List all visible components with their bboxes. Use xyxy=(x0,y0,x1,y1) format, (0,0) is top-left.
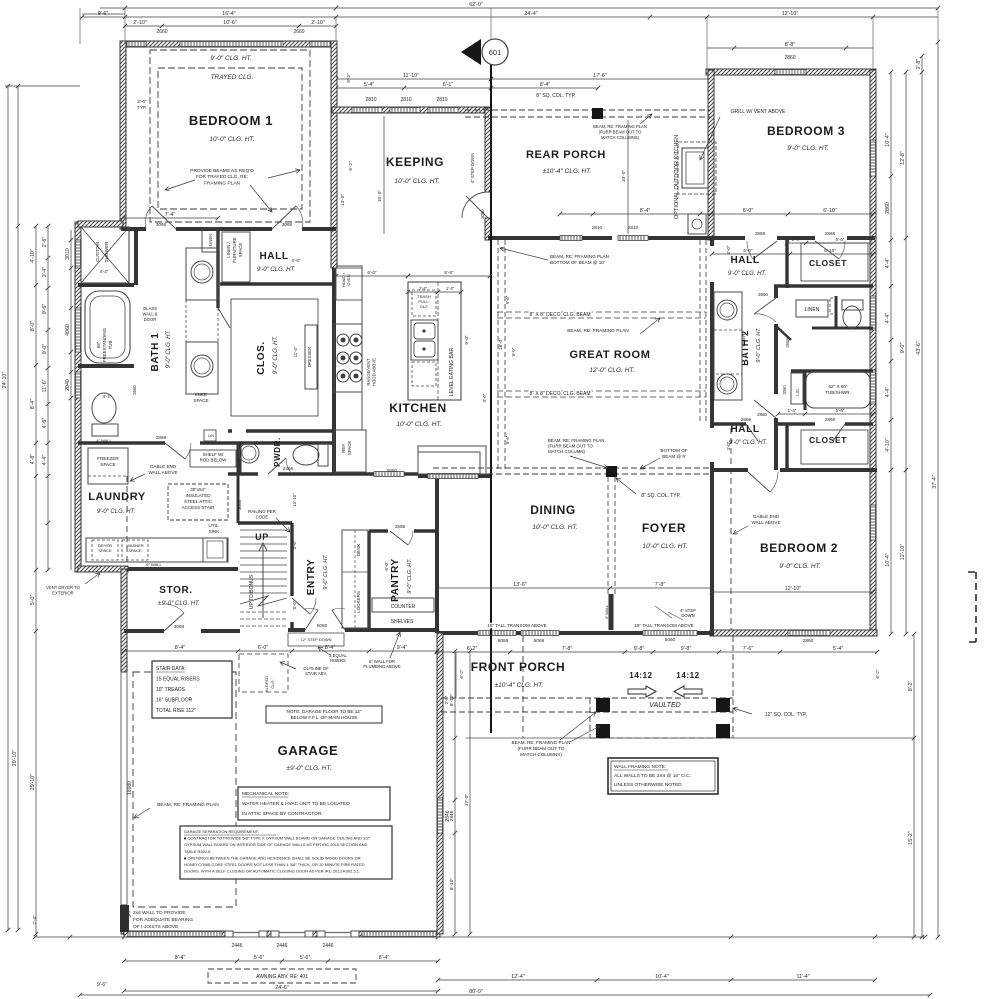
front porch edge dashed xyxy=(590,636,733,738)
svg-text:3068: 3068 xyxy=(174,624,185,629)
wall pantry top xyxy=(369,529,437,532)
svg-text:UNLESS OTHERWISE NOTED.: UNLESS OTHERWISE NOTED. xyxy=(614,782,683,788)
dimension closet1 1'-4 5'-6 xyxy=(785,237,875,245)
wall closet1 left xyxy=(785,238,788,288)
dresser closet xyxy=(305,325,317,389)
range box xyxy=(334,324,362,392)
svg-text:PROVIDE BEAMS AS REQ’D: PROVIDE BEAMS AS REQ’D xyxy=(190,168,254,174)
svg-text:PWDR.: PWDR. xyxy=(273,437,282,467)
svg-text:2446: 2446 xyxy=(276,943,287,949)
dimension island 5'-8 xyxy=(406,270,492,278)
svg-text:10′-0″ CLG. HT.: 10′-0″ CLG. HT. xyxy=(642,543,687,550)
label ref space xyxy=(341,441,352,456)
dimension 5'-4 6'-1 keeping xyxy=(334,82,493,90)
label gable end wall above laundry xyxy=(148,464,177,475)
mechanical underline xyxy=(242,796,288,798)
note beam furr foyer xyxy=(548,438,604,454)
svg-text:CUSTOM: CUSTOM xyxy=(95,242,100,262)
label attic access xyxy=(182,487,215,510)
note garage separation text xyxy=(184,829,371,874)
svg-text:SPACE: SPACE xyxy=(98,548,112,553)
dimension 17'-6 rear porch xyxy=(489,73,713,81)
svg-text:HALL: HALL xyxy=(730,255,759,266)
svg-text:10′-0″ CLG. HT.: 10′-0″ CLG. HT. xyxy=(532,524,577,531)
door leaf closet entry xyxy=(218,308,230,328)
svg-text:BEDROOM 1: BEDROOM 1 xyxy=(189,113,273,128)
svg-text:±9′-0″ CLG. HT.: ±9′-0″ CLG. HT. xyxy=(158,601,200,607)
svg-text:10′-4″: 10′-4″ xyxy=(655,974,669,980)
section marker 601 circle xyxy=(482,39,508,65)
slope arrow left xyxy=(674,686,702,697)
dimension rear porch / bedroom3 bottom xyxy=(558,208,875,216)
svg-text:SHELF W/: SHELF W/ xyxy=(203,452,225,457)
svg-text:9′-0″ CLG. HT.: 9′-0″ CLG. HT. xyxy=(728,271,767,277)
wall shower right xyxy=(134,229,138,285)
column front porch c xyxy=(596,724,610,738)
2x6 bearing wall segment xyxy=(120,905,129,932)
closet2 shelf outline xyxy=(801,430,868,464)
svg-text:DOWN: DOWN xyxy=(681,613,694,618)
dimension kitchen 6'-0 xyxy=(334,270,410,278)
arrow beam furr rear porch xyxy=(640,114,652,124)
svg-text:MECHANICAL NOTE:: MECHANICAL NOTE: xyxy=(242,791,289,797)
note box wall framing xyxy=(608,758,718,794)
door arc stor xyxy=(164,604,184,613)
svg-text:12′-4″: 12′-4″ xyxy=(511,974,525,980)
svg-text:1′-4″: 1′-4″ xyxy=(446,286,455,291)
svg-text:2′-10″: 2′-10″ xyxy=(311,20,325,26)
step down box entry xyxy=(288,633,344,646)
garage door jamb tabs xyxy=(225,931,359,937)
pocket door dashed bath2 wc xyxy=(830,298,836,314)
note box mechanical xyxy=(238,787,390,820)
tick baseline xyxy=(873,935,877,939)
garage ceiling dashed outline xyxy=(133,672,236,907)
wall great room / right wing xyxy=(710,238,714,472)
wall bath2 wc xyxy=(835,296,838,328)
dimension 24'-10 left outer xyxy=(2,84,10,932)
arrow gable bed2 xyxy=(733,526,748,534)
svg-text:3′-0″: 3′-0″ xyxy=(482,393,487,402)
porch v dim line xyxy=(455,652,457,698)
svg-text:VENT DRYER TO: VENT DRYER TO xyxy=(46,585,80,590)
svg-text:7′-6″: 7′-6″ xyxy=(743,646,754,652)
door leaf closet2 a xyxy=(746,424,758,441)
knee space dashed xyxy=(186,300,218,342)
door leaf bedroom1 left xyxy=(152,206,176,229)
note 2x6 wall xyxy=(133,910,193,930)
svg-text:(FURR BEAM OUT TO: (FURR BEAM OUT TO xyxy=(599,129,643,134)
svg-text:DINING: DINING xyxy=(530,503,576,517)
svg-text:SLOPED: SLOPED xyxy=(264,676,269,692)
svg-text:5068: 5068 xyxy=(317,623,328,628)
wall keeping top exterior xyxy=(332,107,490,113)
svg-text:4′-2″: 4′-2″ xyxy=(103,394,112,399)
door leaf laundry xyxy=(165,443,185,459)
svg-text:9′-6″: 9′-6″ xyxy=(505,295,510,304)
grill dashed surround xyxy=(678,142,716,194)
window bedroom2 bottom 2860 xyxy=(788,631,830,636)
dimension 11'-10 keeping xyxy=(334,73,493,81)
svg-text:WALL FRAMING NOTE:: WALL FRAMING NOTE: xyxy=(614,764,666,770)
svg-text:10′-4″: 10′-4″ xyxy=(885,133,891,147)
sink bath1 upper xyxy=(191,261,213,283)
svg-text:BEAM, RE: FRAMING PLAN: BEAM, RE: FRAMING PLAN xyxy=(550,254,609,259)
door leaf entry b xyxy=(332,610,345,630)
svg-text:CLOSET: CLOSET xyxy=(809,258,847,268)
svg-text:CLG.: CLG. xyxy=(270,679,275,688)
svg-text:■ OPENINGS BETWEEN THE GARAGE: ■ OPENINGS BETWEEN THE GARAGE AND RESIDE… xyxy=(184,855,361,860)
svg-text:24′-10″: 24′-10″ xyxy=(2,372,8,389)
svg-text:3068: 3068 xyxy=(282,222,293,227)
label vent dryer xyxy=(46,585,80,595)
svg-text:SHOWER: SHOWER xyxy=(104,241,109,262)
angled wall bath2 xyxy=(776,326,791,340)
svg-text:LEVEL EATING BAR: LEVEL EATING BAR xyxy=(449,348,455,397)
tray ceiling dashed outer bedroom1 xyxy=(150,50,310,222)
wall bath2 / closet column xyxy=(774,286,778,470)
svg-text:80′-0″: 80′-0″ xyxy=(469,989,483,995)
keeping v dim line xyxy=(383,116,385,234)
svg-text:3′-0″: 3′-0″ xyxy=(726,245,731,254)
door arc bedroom3 a xyxy=(747,241,753,259)
window keeping 2810 a xyxy=(352,108,382,113)
svg-text:43′-6″: 43′-6″ xyxy=(916,341,922,355)
svg-text:10″ TREADS: 10″ TREADS xyxy=(156,687,186,693)
note box stair data xyxy=(152,661,232,718)
dimension extension lines top xyxy=(80,8,938,70)
svg-text:5066: 5066 xyxy=(498,638,509,644)
dining/foyer column dashed line xyxy=(608,477,615,594)
svg-text:FOR ADEQUATE BEARING: FOR ADEQUATE BEARING xyxy=(133,917,193,923)
note gable end wall above bed2 xyxy=(751,514,780,525)
dimension garage doors xyxy=(122,955,440,963)
svg-text:GLASS: GLASS xyxy=(143,306,157,311)
svg-text:FREEZER: FREEZER xyxy=(97,456,119,461)
svg-text:10′-4″: 10′-4″ xyxy=(885,553,891,567)
svg-text:4′-4″: 4′-4″ xyxy=(885,313,891,324)
svg-text:LINEN: LINEN xyxy=(208,234,213,246)
wall front entry/pantry xyxy=(288,628,437,632)
svg-text:8′-2″: 8′-2″ xyxy=(908,681,914,692)
wall laundry bottom xyxy=(78,566,128,572)
svg-text:INSULATED: INSULATED xyxy=(186,493,212,498)
wall garage bottom exterior xyxy=(124,931,225,937)
svg-text:KNEE: KNEE xyxy=(195,392,208,397)
arrow bottom beam 9 xyxy=(640,458,660,469)
svg-text:8″ SQ. COL. TYP.: 8″ SQ. COL. TYP. xyxy=(536,93,575,99)
svg-text:11′-4″: 11′-4″ xyxy=(796,974,809,980)
dimension line 62'-0 top xyxy=(100,2,940,10)
wall bedroom1 left exterior xyxy=(120,41,126,229)
svg-text:12′-8″: 12′-8″ xyxy=(900,151,906,165)
grill box inner xyxy=(686,152,704,184)
dimension left col3 xyxy=(30,224,38,936)
wall bedroom1 top exterior xyxy=(121,41,337,47)
vanity bath1 upper xyxy=(186,248,218,300)
svg-text:24′-4″: 24′-4″ xyxy=(524,11,538,17)
dimension line bedroom1 windows tier xyxy=(123,20,338,28)
arrows 4 step down xyxy=(655,606,683,620)
linen furniture box xyxy=(222,232,250,282)
arrow 8 sq col xyxy=(616,478,636,494)
svg-text:9′-8″: 9′-8″ xyxy=(634,646,645,652)
svg-text:9′-0″ CLG. HT.: 9′-0″ CLG. HT. xyxy=(257,267,296,273)
svg-text:2860: 2860 xyxy=(757,412,767,417)
svg-text:HONEYCOMB-CORE STEEL DOORS NOT: HONEYCOMB-CORE STEEL DOORS NOT LESS THAN… xyxy=(184,862,365,867)
svg-text:9′-0″ CLG. HT.: 9′-0″ CLG. HT. xyxy=(756,327,762,362)
tick baseline xyxy=(436,935,440,939)
svg-text:UP: UP xyxy=(255,532,269,542)
dimension right col 43-6 xyxy=(916,54,924,939)
svg-text:2868: 2868 xyxy=(156,435,167,440)
dimension left col2 xyxy=(12,84,20,932)
arrow 2 equal risers xyxy=(318,647,330,655)
wall garage left exterior xyxy=(121,569,127,672)
svg-text:9′-0″: 9′-0″ xyxy=(900,343,906,354)
svg-text:3068: 3068 xyxy=(156,222,167,227)
svg-text:2′-4″: 2′-4″ xyxy=(42,267,48,278)
wall keeping right xyxy=(485,108,491,192)
svg-text:12″ SQ. COL. TYP.: 12″ SQ. COL. TYP. xyxy=(765,712,807,718)
vanity bath1 lower xyxy=(186,342,218,394)
svg-text:2810: 2810 xyxy=(436,97,447,103)
dimension left window sizes xyxy=(65,230,73,570)
great room east columns dashed xyxy=(700,240,706,424)
pantry counter xyxy=(372,598,434,612)
util sink inner xyxy=(207,541,223,558)
svg-text:TRAYED CLG.: TRAYED CLG. xyxy=(211,74,254,81)
svg-text:2′-4″: 2′-4″ xyxy=(32,915,37,925)
ref space box xyxy=(334,430,366,472)
svg-text:2660: 2660 xyxy=(156,29,167,35)
trash pullout dashed xyxy=(412,290,436,316)
svg-text:SPACE: SPACE xyxy=(347,441,352,456)
arrow railing xyxy=(276,518,290,532)
arrow beam10 xyxy=(500,247,548,260)
wall front dining/foyer xyxy=(437,631,712,635)
slope arrow right xyxy=(628,686,656,697)
svg-text:6′-0″: 6′-0″ xyxy=(258,645,269,651)
svg-text:SPACE: SPACE xyxy=(128,548,142,553)
closet shelf outline xyxy=(231,299,318,416)
svg-text:5′-6″: 5′-6″ xyxy=(254,955,265,961)
svg-text:12′-10″: 12′-10″ xyxy=(785,586,802,592)
arrow gable laundry xyxy=(130,474,145,481)
svg-text:4′-10″: 4′-10″ xyxy=(30,249,36,263)
door leaf bath2 upper xyxy=(754,298,776,314)
column front porch b xyxy=(716,698,730,712)
label freezer space xyxy=(97,456,119,467)
svg-text:GARAGE: GARAGE xyxy=(278,743,339,758)
svg-text:29′-10″: 29′-10″ xyxy=(30,774,36,791)
svg-text:1′-4″: 1′-4″ xyxy=(792,237,801,242)
svg-text:2810: 2810 xyxy=(592,225,603,230)
svg-text:6″ WALL: 6″ WALL xyxy=(146,562,162,567)
wall framing underline xyxy=(614,769,668,771)
stairs break line xyxy=(240,596,287,606)
svg-text:16″ TALL TRANSOM ABOVE: 16″ TALL TRANSOM ABOVE xyxy=(487,623,546,628)
sink bath1 upper inner xyxy=(194,264,210,280)
svg-text:601: 601 xyxy=(489,48,502,57)
svg-text:2660: 2660 xyxy=(758,292,768,297)
label dryer space xyxy=(98,543,112,553)
svg-text:TUB/SHWR.: TUB/SHWR. xyxy=(825,390,851,395)
svg-text:HOOD ABOVE: HOOD ABOVE xyxy=(371,358,376,386)
window front 5060 xyxy=(643,631,697,636)
svg-text:CLOSET: CLOSET xyxy=(809,435,847,445)
sink bath1 lower inner xyxy=(194,358,210,374)
svg-text:8′-4″: 8′-4″ xyxy=(379,955,390,961)
dimension front porch bottoms xyxy=(436,974,877,982)
door arc bath2 upper xyxy=(754,314,776,322)
dimension 8'-4 rear porch xyxy=(491,82,600,90)
svg-text:9′-4″: 9′-4″ xyxy=(397,645,408,651)
note garage floor text xyxy=(287,709,362,720)
svg-text:8″ X 8″ DECO. CLG. BEAM: 8″ X 8″ DECO. CLG. BEAM xyxy=(529,312,590,318)
custom shower X xyxy=(81,227,129,283)
sink bath2 lower inner xyxy=(720,377,734,391)
front porch beam dashed xyxy=(441,698,733,712)
wall bedroom2 top xyxy=(712,468,877,472)
svg-text:2′-0″: 2′-0″ xyxy=(137,99,147,104)
svg-text:30″x54″: 30″x54″ xyxy=(190,487,206,492)
svg-text:BOTTOM OF BEAM @ 10′: BOTTOM OF BEAM @ 10′ xyxy=(550,260,605,265)
arrow provide beams a xyxy=(165,180,195,191)
foyer beam dashed xyxy=(433,468,712,474)
svg-text:4′-4″: 4′-4″ xyxy=(885,258,891,269)
svg-text:BEAM, RE: FRAMING PLAN: BEAM, RE: FRAMING PLAN xyxy=(548,438,604,443)
sink powder xyxy=(239,443,259,463)
svg-text:HALL: HALL xyxy=(730,424,759,435)
svg-text:PLUMBING ABOVE: PLUMBING ABOVE xyxy=(363,664,400,669)
svg-text:8′-0″: 8′-0″ xyxy=(30,321,36,332)
svg-text:GABLE END: GABLE END xyxy=(753,514,780,519)
svg-text:DOOR: DOOR xyxy=(144,317,157,322)
window bedroom1 top right xyxy=(310,42,334,47)
svg-text:5′-6″: 5′-6″ xyxy=(836,237,845,242)
door leaf bedroom3 b xyxy=(815,241,839,259)
column rear porch xyxy=(592,108,603,119)
svg-text:2860: 2860 xyxy=(784,55,795,61)
svg-text:BEDROOM 2: BEDROOM 2 xyxy=(760,541,838,555)
svg-text:17′-6″: 17′-6″ xyxy=(593,73,607,79)
svg-text:OUT: OUT xyxy=(420,304,429,309)
svg-text:8′-4″: 8′-4″ xyxy=(640,208,651,214)
closet1 shelf outline xyxy=(801,243,868,281)
window bath1 wc 2040 xyxy=(76,372,81,398)
door leaf entry a xyxy=(305,610,318,630)
svg-text:8′-4″: 8′-4″ xyxy=(175,955,186,961)
arrow 2x6 wall xyxy=(126,910,131,917)
svg-text:11′-6″: 11′-6″ xyxy=(42,379,48,392)
svg-text:STAIR ABV.: STAIR ABV. xyxy=(305,671,327,676)
wall left wing top xyxy=(78,221,123,227)
garage bottom siding a xyxy=(128,932,222,937)
svg-text:2′-10″: 2′-10″ xyxy=(133,20,147,26)
svg-text:GYPSUM WALL BOARD ON INTERIOR: GYPSUM WALL BOARD ON INTERIOR SIDE OF GA… xyxy=(184,842,367,847)
kitchen south counter xyxy=(418,446,486,474)
door arc bedroom1 right xyxy=(296,206,303,229)
wall hall1 bottom xyxy=(78,441,336,444)
svg-text:12′-10″: 12′-10″ xyxy=(900,544,906,561)
garage side door 18080 jambs xyxy=(121,672,127,905)
rear porch beam dashed xyxy=(465,110,711,117)
svg-text:7′-8″: 7′-8″ xyxy=(562,646,573,652)
window front 5066 b xyxy=(521,631,559,636)
svg-text:9′-6″: 9′-6″ xyxy=(97,982,107,988)
door arc entry b xyxy=(332,608,345,610)
svg-text:±10′-4″ CLG. HT.: ±10′-4″ CLG. HT. xyxy=(543,168,592,175)
svg-text:MATCH COLUMN): MATCH COLUMN) xyxy=(548,449,586,454)
svg-text:6″ WALL: 6″ WALL xyxy=(605,605,609,619)
svg-text:TOTAL RISE 112″: TOTAL RISE 112″ xyxy=(156,708,196,714)
svg-text:EXTERIOR: EXTERIOR xyxy=(52,590,73,595)
svg-text:DOORS. WITH A SELF CLOSING OR: DOORS. WITH A SELF CLOSING OR AUTOMATIC … xyxy=(184,869,360,874)
wall tub room top xyxy=(791,369,873,372)
svg-text:UP TO BONUS: UP TO BONUS xyxy=(249,574,255,609)
note mechanical text xyxy=(242,791,350,817)
dimension hall2 6'-0 6'-10 xyxy=(710,248,875,256)
svg-text:2′-8″: 2′-8″ xyxy=(444,695,449,704)
svg-text:8″ SQ. COL. TYP.: 8″ SQ. COL. TYP. xyxy=(641,493,680,499)
svg-text:2568: 2568 xyxy=(395,524,406,529)
freestanding tub xyxy=(85,291,130,363)
wall stor bottom xyxy=(124,629,240,633)
wall stair top xyxy=(238,521,292,524)
washer space box xyxy=(122,540,148,560)
wall bath1 / hall1 divider xyxy=(216,229,219,308)
door leaf stor xyxy=(164,613,184,631)
svg-text:3010: 3010 xyxy=(65,248,71,260)
svg-text:MATCH COLUMNS): MATCH COLUMNS) xyxy=(601,135,640,140)
stairs treads xyxy=(240,530,287,593)
svg-text:9′-2″: 9′-2″ xyxy=(348,161,354,171)
svg-text:PANTRY: PANTRY xyxy=(390,558,401,602)
svg-text:ENTRY: ENTRY xyxy=(306,559,317,596)
window right wall tub xyxy=(871,370,876,404)
svg-text:2446: 2446 xyxy=(231,943,242,949)
svg-text:8′-4″: 8′-4″ xyxy=(30,399,36,410)
svg-text:RAILING PER: RAILING PER xyxy=(248,509,276,514)
svg-text:15 EQUAL RISERS: 15 EQUAL RISERS xyxy=(156,677,200,683)
door arc powder xyxy=(286,458,292,474)
svg-text:11′-4″: 11′-4″ xyxy=(293,346,298,357)
column front porch d xyxy=(716,724,730,738)
window bedroom1 top left xyxy=(127,42,146,47)
dimension porch right 8-2 15-2 xyxy=(908,632,916,939)
svg-text:COUNTER: COUNTER xyxy=(391,604,416,610)
section marker 601 triangle xyxy=(461,39,481,65)
svg-text:2810: 2810 xyxy=(400,97,411,103)
svg-text:9′-8″: 9′-8″ xyxy=(681,646,692,652)
outdoor sink bowl xyxy=(692,219,702,229)
svg-text:8′-0″: 8′-0″ xyxy=(511,347,516,356)
toilet bath2 xyxy=(843,306,861,328)
svg-text:12′-10″: 12′-10″ xyxy=(782,11,799,17)
svg-text:DESK: DESK xyxy=(356,543,361,556)
svg-text:FRONT PORCH: FRONT PORCH xyxy=(471,660,566,674)
svg-text:16′-4″: 16′-4″ xyxy=(222,11,236,17)
svg-text:5060: 5060 xyxy=(665,637,676,643)
svg-text:10′-6″: 10′-6″ xyxy=(223,20,237,26)
knee space bath2 dashed xyxy=(714,330,742,374)
note railing per code xyxy=(248,509,276,520)
wall powder left xyxy=(239,443,242,474)
wall tub room left xyxy=(804,371,807,410)
svg-text:6′-2″: 6′-2″ xyxy=(875,669,880,679)
svg-text:WALL ABOVE: WALL ABOVE xyxy=(751,520,780,525)
